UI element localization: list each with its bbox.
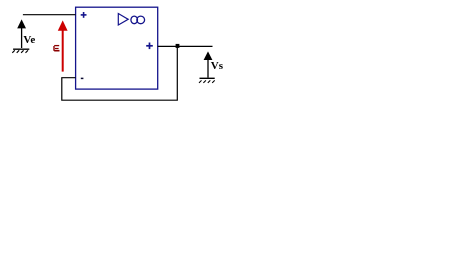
svg-text:Vs: Vs bbox=[211, 60, 224, 72]
wire input (Ve node to + input) bbox=[23, 14, 76, 16]
voltage arrow Vs bbox=[204, 51, 213, 77]
node junction on output wire bbox=[176, 44, 180, 48]
ground (Vs) bbox=[199, 78, 215, 83]
voltage arrow Ve bbox=[17, 19, 26, 48]
op-amp inverting input label - bbox=[81, 77, 84, 79]
svg-text:Ve: Ve bbox=[23, 34, 35, 46]
label Ve bbox=[23, 34, 35, 46]
label epsilon bbox=[54, 46, 60, 51]
wire output (op-amp output to Vs node) bbox=[158, 45, 213, 47]
op-amp U1 (ideal op-amp box) bbox=[76, 7, 158, 89]
wire feedback (output node to inverting input) bbox=[62, 46, 178, 100]
op-amp output label + bbox=[146, 43, 153, 50]
op-amp gain symbol triangle bbox=[118, 14, 128, 26]
label Vs bbox=[211, 60, 224, 72]
ground (Ve) bbox=[12, 49, 29, 53]
voltage arrow epsilon (differential input) bbox=[58, 20, 68, 71]
op-amp gain symbol infinity bbox=[131, 16, 145, 24]
op-amp non-inverting input label + bbox=[81, 12, 87, 18]
